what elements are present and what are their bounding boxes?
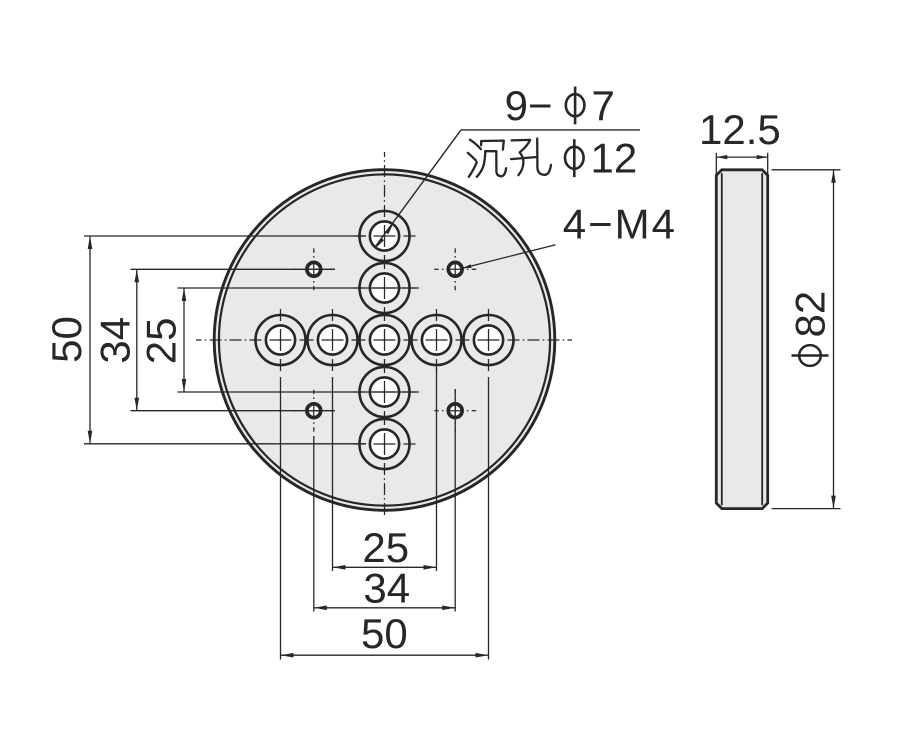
dimension 25 left: value text [138, 317, 185, 364]
callout text 4-M4 [563, 200, 677, 247]
dimension 25 bottom: value text [362, 524, 409, 571]
M4 tapped hole bottom-right [434, 390, 476, 432]
dimension 50 left: dimension line with arrows [88, 236, 93, 444]
leader line for counterbore hole callout [375, 130, 640, 247]
dimension 50 bottom: value text [361, 610, 408, 657]
callout text 9-φ7 [505, 82, 615, 129]
dimension 25 bottom: dimension line with arrows [333, 565, 437, 570]
leader arrowheads on φ7 circle of top hole [376, 224, 393, 248]
dimension 34 left: dimension line with arrows [135, 269, 140, 410]
dimension 12.5: value text [699, 106, 781, 153]
svg-text:34: 34 [92, 317, 139, 364]
dimension 25 bottom: extension lines [333, 368, 437, 571]
leader line for M4 callout [462, 245, 555, 268]
dimension 34 bottom: extension lines [314, 389, 455, 612]
M4 tapped hole bottom-left [293, 390, 335, 432]
hole φ7/φ12 lower-middle [354, 367, 416, 417]
dimension 12.5: extension lines [716, 153, 767, 175]
dimension φ82: dimension line with arrows [831, 170, 836, 509]
svg-text:7: 7 [592, 82, 615, 129]
dimension 25 left: dimension line with arrows [182, 288, 187, 392]
dimension φ82: extension lines [772, 170, 841, 509]
hole φ7/φ12 left outer [256, 309, 306, 371]
hole φ7/φ12 right inner [412, 309, 462, 371]
dimension 34 bottom: value text [363, 565, 410, 612]
dimension 50 left: extension lines [84, 236, 366, 444]
svg-text:12.5: 12.5 [699, 106, 781, 153]
svg-text:50: 50 [361, 610, 408, 657]
svg-text:82: 82 [786, 291, 833, 338]
M4 tapped hole top-left [293, 248, 335, 290]
dimension 12.5: dimension line with arrows [716, 155, 767, 159]
M4 tapped hole top-right [434, 248, 476, 290]
horizontal centerline of plate [196, 339, 572, 341]
side view chamfer lines [721, 173, 723, 505]
hole φ7/φ12 left inner [308, 309, 358, 371]
dimension 50 bottom: extension lines [281, 377, 489, 660]
svg-text:9−: 9− [505, 82, 553, 129]
dimension 34 left: extension lines [131, 269, 336, 410]
dimension φ82: value text [786, 291, 833, 366]
vertical centerline of plate [384, 152, 386, 515]
hole φ7/φ12 top [354, 211, 416, 261]
svg-text:25: 25 [138, 317, 185, 364]
svg-text:34: 34 [363, 565, 410, 612]
side view plate outline (chamfered rectangle) [716, 170, 767, 509]
svg-text:12: 12 [591, 135, 638, 182]
dimension 25 left: extension lines [178, 288, 420, 392]
callout text 沉孔 (counterbore) [468, 139, 551, 177]
main plate circular outline [214, 170, 555, 511]
hole φ7/φ12 right outer [464, 309, 514, 371]
svg-text:4−M4: 4−M4 [563, 200, 677, 247]
hole φ7/φ12 bottom [354, 419, 416, 469]
dimension 34 left: value text [92, 317, 139, 364]
svg-text:50: 50 [43, 316, 90, 363]
hole φ7/φ12 upper-middle [354, 263, 416, 313]
callout text φ12 [565, 135, 637, 182]
hole φ7/φ12 center [360, 315, 410, 365]
dimension 34 bottom: dimension line with arrows [314, 606, 455, 611]
dimension 50 left: value text [43, 316, 90, 363]
dimension 50 bottom: dimension line with arrows [281, 653, 489, 658]
